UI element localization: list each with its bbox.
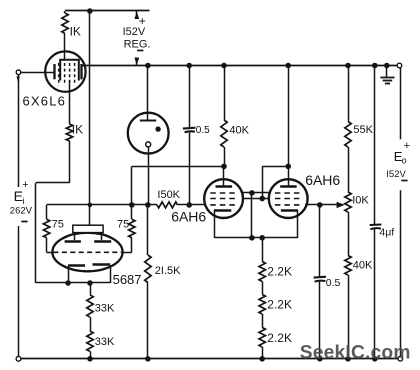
svg-text:+: +	[22, 179, 28, 191]
resistor R13 2.2K	[259, 262, 265, 282]
wire grid-bus left section	[47, 204, 157, 206]
resistor R8 55K	[345, 122, 351, 148]
svg-text:33K: 33K	[95, 303, 115, 315]
svg-text:o: o	[402, 156, 407, 166]
wire R11 to cathode line	[69, 141, 71, 183]
resistor R12 21.5K	[147, 205, 149, 255]
tube V3 6AH6 envelope	[269, 179, 308, 218]
node C1 / V4 grid	[186, 202, 192, 208]
wire VR tube cathode lead	[148, 147, 150, 205]
wire grid connector row2	[242, 198, 269, 200]
svg-text:40K: 40K	[353, 260, 373, 272]
tube V2 cathode circle	[146, 142, 151, 147]
node R4 40K / bus	[221, 63, 227, 69]
node cathode line / R13 chain	[259, 235, 265, 241]
label Ei minus	[21, 221, 27, 223]
resistor R7 33K	[90, 317, 92, 331]
annotation arrow 152V REG (down)	[136, 58, 138, 66]
wire V3 plate lead	[288, 66, 290, 187]
resistor R11 1K (V1 cathode)	[66, 124, 72, 141]
resistor R4 40K	[221, 120, 227, 147]
wire suppressor to cathode drop	[251, 193, 253, 238]
svg-text:E: E	[14, 188, 23, 204]
node V3 plate / screen tie	[285, 164, 291, 170]
node cathode / left leg	[65, 280, 71, 286]
svg-text:6AH6: 6AH6	[171, 208, 206, 224]
svg-text:I52V: I52V	[123, 26, 146, 38]
resistor R6 33K	[90, 283, 92, 295]
wire R8 top lead	[348, 66, 350, 122]
node R6 chain / rail	[87, 356, 93, 362]
svg-text:REG.: REG.	[124, 38, 151, 50]
wire V1 cathode to 5687 cathode (jog)	[69, 81, 71, 125]
wire grid connector row1	[241, 192, 271, 194]
wire R10 bottom lead	[348, 275, 350, 359]
tube V4 cathode bar	[214, 209, 231, 211]
svg-text:5687: 5687	[113, 272, 142, 287]
node VR tube / bus	[145, 63, 151, 69]
node 5687 plate feed / grid-bus	[88, 203, 93, 208]
wire R9-R10 link	[348, 212, 350, 256]
wire R8-R9 link	[348, 147, 350, 192]
tube V1 6X6L6 envelope	[45, 51, 85, 91]
capacitor C2 0.5	[314, 276, 326, 279]
wire R7 bottom lead	[90, 351, 92, 358]
wire R5 to V4 grid	[178, 204, 206, 206]
svg-text:4μf: 4μf	[379, 227, 394, 239]
svg-text:6X6L6: 6X6L6	[23, 94, 67, 109]
wire C3 bottom lead	[374, 229, 376, 359]
svg-text:2.2K: 2.2K	[267, 298, 292, 312]
svg-text:6AH6: 6AH6	[305, 172, 340, 188]
wire cathode to R13	[262, 238, 264, 262]
tube V3 grids (dashed rows)	[275, 192, 302, 194]
tube V4 plate bar	[216, 185, 233, 187]
resistor R2 75 (left)	[46, 205, 48, 219]
tube V5 plate legs	[74, 233, 76, 241]
tube V4 6AH6 envelope	[204, 179, 243, 218]
potentiometer wiper arrow	[337, 202, 345, 208]
wire 5687 cathode line	[36, 282, 110, 284]
resistor R5 150K	[157, 202, 178, 208]
node cathode line / drop	[249, 235, 255, 241]
tube V5 grid (dashed)	[54, 251, 122, 253]
svg-text:I0K: I0K	[352, 194, 369, 206]
node C3 / rail	[372, 356, 378, 362]
node C3 4uf / bus	[372, 63, 378, 69]
node VR cathode / 21.5K	[145, 202, 151, 208]
node cathode / R6 33K	[87, 280, 93, 286]
wire V4 plate lead	[223, 166, 225, 186]
wire C2 bottom lead	[319, 281, 321, 359]
wire C2 top lead	[319, 205, 321, 277]
svg-text:IK: IK	[72, 123, 83, 137]
wire 6X6L6 plate lead	[64, 34, 66, 60]
node C1 / bus	[186, 63, 192, 69]
svg-text:2.2K: 2.2K	[267, 264, 292, 278]
wire screen tie (L)	[262, 166, 288, 168]
svg-text:I52V: I52V	[386, 169, 406, 180]
label 152V REG minus	[137, 50, 143, 52]
tube V4 cathode leg	[214, 210, 216, 238]
node C2 / rail	[317, 356, 323, 362]
node R15 / rail	[259, 356, 265, 362]
svg-text:I50K: I50K	[157, 189, 180, 201]
wire cathode line V4-V3	[214, 237, 298, 239]
tube V5 cathode bars	[68, 264, 85, 266]
svg-text:SeekIC.com: SeekIC.com	[300, 342, 411, 363]
node row1 / cathode drop	[249, 190, 255, 196]
tube V3 plate bar	[280, 185, 297, 187]
wire R12 bottom lead	[147, 283, 149, 359]
wire VR tube anode lead	[147, 66, 149, 121]
tube V1 screen bar right	[80, 64, 82, 79]
svg-text:55K: 55K	[353, 124, 373, 136]
terminal Ei- (input bottom)	[16, 356, 21, 361]
terminal Eo- (output bottom)	[398, 357, 403, 362]
terminal Ei+ (input top)	[16, 70, 21, 75]
svg-text:IK: IK	[70, 25, 81, 39]
wire top +152V bus	[65, 10, 150, 12]
wire +output bus (mid rail)	[81, 65, 397, 67]
tube V5 cathode legs	[68, 266, 70, 284]
node wiper / C2	[317, 202, 323, 208]
resistor R14 2.2K	[262, 282, 264, 295]
wire C3 top lead	[374, 66, 376, 225]
tube V5 plate bars	[65, 240, 81, 242]
resistor R9 10K (pot)	[345, 192, 351, 212]
tube V4 grids (dashed rows)	[210, 192, 237, 194]
resistor R1 1K (6X6L6 plate load)	[62, 13, 68, 34]
tube V3 cathode leg	[297, 210, 299, 238]
wire left rail lower segment	[18, 226, 20, 356]
svg-text:0.5: 0.5	[326, 277, 341, 289]
wire C1 bottom lead	[189, 133, 191, 205]
wire R4 bottom lead	[224, 147, 226, 166]
tube V2 gas dot	[155, 126, 160, 131]
tube V1 plate (inverted U)	[60, 60, 79, 81]
terminal Eo+ (output top)	[397, 63, 402, 68]
polarity arrow below Ei+ terminal	[17, 76, 20, 82]
svg-text:+: +	[404, 140, 410, 152]
wire C1 top lead	[189, 66, 191, 129]
tube V1 grids (dashed columns)	[58, 63, 60, 86]
wire V1 grid lead	[21, 72, 55, 74]
tube V5 5687 envelope	[52, 233, 122, 272]
capacitor C1 0.5	[183, 127, 196, 130]
node left 6AH6 plate	[221, 164, 227, 170]
svg-text:0.5: 0.5	[196, 125, 210, 136]
wire R15 bottom lead	[262, 347, 264, 359]
svg-text:2.2K: 2.2K	[267, 331, 292, 345]
resistor R3 75 (right)	[131, 205, 133, 219]
wire 5687 plate feed vertical	[89, 11, 91, 225]
ground	[386, 66, 388, 77]
tube V3 cathode bar	[281, 209, 298, 211]
svg-text:75: 75	[117, 219, 129, 231]
wire Eo line upper	[400, 68, 402, 140]
tube V1 cathode bar left	[53, 64, 55, 79]
capacitor C3 4uf	[370, 223, 382, 226]
node R10 / rail	[345, 356, 351, 362]
node top-bus / 5687 plate feed	[87, 8, 93, 14]
svg-text:262V: 262V	[10, 205, 33, 216]
node R8 55K / bus	[345, 63, 351, 69]
node V3 plate / bus	[285, 63, 291, 69]
svg-text:40K: 40K	[229, 125, 249, 137]
svg-text:2I.5K: 2I.5K	[155, 265, 181, 277]
node plate-L / 75 ohm right	[129, 202, 135, 208]
label Eo minus	[401, 180, 407, 182]
resistor R15 2.2K	[262, 314, 264, 328]
wire R3 to 5687 grid	[131, 238, 133, 253]
wire Eo line lower	[400, 190, 402, 356]
tube V2 anode bar	[140, 120, 156, 122]
tube V2 VR envelope	[128, 113, 169, 154]
wire left rail upper segment	[18, 75, 20, 187]
svg-text:75: 75	[52, 219, 64, 231]
wire R2 to 5687 grid	[46, 238, 48, 253]
resistor R10 40K	[345, 256, 351, 276]
node ground / bus	[384, 63, 390, 69]
annotation arrow 152V REG (up)	[136, 11, 138, 19]
tube V5 plate box	[73, 225, 103, 232]
wire bottom rail	[21, 358, 398, 360]
wire R4 top lead	[224, 66, 226, 121]
wire plate node to grid-bus (L)	[132, 166, 224, 168]
svg-text:33K: 33K	[95, 336, 115, 348]
node R12 / rail	[145, 356, 151, 362]
node row2 / screen tie	[259, 196, 265, 202]
wire V3 grid to wiper	[305, 204, 337, 206]
